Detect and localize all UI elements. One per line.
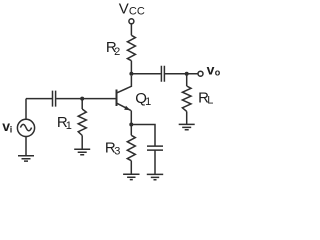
node collector junction (129, 72, 133, 76)
wire R3 to ground (130, 161, 132, 175)
wire capacitor to base (56, 98, 116, 100)
capacitor emitter bypass (147, 146, 163, 150)
node output junction (185, 72, 189, 76)
node VCC terminal (129, 19, 134, 24)
wire output node to RL (186, 74, 188, 86)
wire vi top (25, 99, 27, 120)
svg-text:V: V (119, 0, 129, 17)
svg-text:v: v (207, 62, 215, 78)
wire collector node to output capacitor (131, 73, 160, 75)
wire bypass capacitor to ground (154, 150, 156, 174)
capacitor input coupling (53, 91, 56, 107)
svg-text:L: L (207, 95, 213, 107)
wire RL to ground (186, 111, 188, 124)
resistor RL (182, 86, 191, 111)
resistor R3 (127, 135, 135, 160)
source vi (17, 119, 34, 136)
svg-text:o: o (215, 68, 221, 78)
node emitter junction (129, 123, 133, 127)
svg-text:i: i (10, 124, 13, 134)
wire emitter node to R3 (130, 125, 132, 136)
svg-text:2: 2 (114, 46, 120, 58)
ground RL (179, 124, 195, 129)
wire input row: vi to capacitor (26, 98, 52, 100)
wire capacitor to vo (165, 73, 198, 75)
ground R1 (74, 149, 90, 154)
wire vi to ground (25, 137, 27, 156)
node base junction (80, 97, 84, 101)
node vo terminal (198, 71, 203, 76)
capacitor output coupling (161, 66, 164, 82)
transistor Q1 (116, 90, 118, 107)
wire VCC to R2 (130, 24, 132, 35)
svg-text:1: 1 (66, 120, 72, 132)
resistor R2 (127, 35, 135, 60)
svg-text:3: 3 (114, 145, 120, 157)
wire R2 to collector node (130, 61, 132, 74)
wire emitter node to bypass capacitor (131, 125, 155, 147)
wire R1 to ground (81, 136, 83, 150)
ground vi (18, 156, 34, 161)
ground R3 (123, 174, 139, 179)
wire base node to R1 (81, 99, 83, 109)
resistor R1 (78, 109, 86, 136)
ground bypass capacitor (147, 174, 163, 179)
svg-text:1: 1 (145, 96, 151, 108)
svg-text:CC: CC (129, 5, 145, 17)
